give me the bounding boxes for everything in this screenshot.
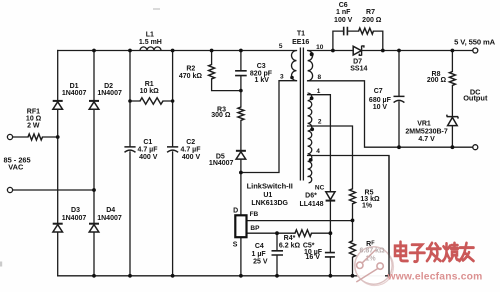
svg-text:4: 4	[316, 148, 320, 155]
svg-text:1N4007: 1N4007	[62, 215, 87, 222]
svg-text:10 V: 10 V	[373, 104, 388, 111]
svg-text:C2: C2	[186, 139, 195, 146]
svg-text:T1: T1	[297, 31, 305, 38]
svg-text:D6*: D6*	[305, 192, 317, 199]
svg-text:1 µF: 1 µF	[252, 251, 267, 258]
svg-text:200 Ω: 200 Ω	[427, 77, 447, 84]
svg-text:25 V: 25 V	[253, 258, 268, 265]
svg-text:300 Ω: 300 Ω	[211, 112, 231, 119]
svg-text:C3: C3	[257, 63, 266, 70]
svg-text:1N4007: 1N4007	[62, 90, 87, 97]
svg-text:LL4148: LL4148	[299, 201, 323, 208]
svg-text:NC: NC	[315, 184, 325, 191]
svg-text:1: 1	[317, 88, 321, 95]
svg-text:1.5 mH: 1.5 mH	[139, 39, 162, 46]
svg-text:BP: BP	[250, 225, 260, 232]
svg-text:S: S	[233, 242, 238, 249]
svg-text:C7: C7	[374, 88, 383, 95]
svg-text:L1: L1	[146, 32, 154, 39]
svg-text:5 V, 550 mA: 5 V, 550 mA	[454, 37, 495, 46]
svg-text:2: 2	[318, 119, 322, 126]
svg-text:EE16: EE16	[292, 39, 309, 46]
svg-text:FB: FB	[250, 211, 259, 218]
svg-text:4.7 V: 4.7 V	[418, 136, 435, 143]
svg-text:R4*: R4*	[284, 235, 296, 242]
svg-text:U1: U1	[263, 192, 272, 199]
svg-text:4.7 µF: 4.7 µF	[181, 147, 202, 154]
svg-text:400 V: 400 V	[182, 154, 201, 161]
svg-text:D1: D1	[70, 83, 79, 90]
svg-text:VAC: VAC	[8, 163, 24, 172]
svg-text:1 nF: 1 nF	[336, 9, 351, 16]
svg-text:10 kΩ: 10 kΩ	[140, 88, 160, 95]
svg-text:D3: D3	[71, 207, 80, 214]
svg-text:6.2 kΩ: 6.2 kΩ	[279, 243, 301, 250]
svg-text:200 Ω: 200 Ω	[362, 17, 382, 24]
svg-text:VR1: VR1	[417, 120, 431, 127]
svg-text:RF1: RF1	[27, 109, 40, 116]
svg-text:Output: Output	[463, 93, 488, 102]
svg-text:D: D	[233, 208, 238, 215]
svg-text:680 µF: 680 µF	[369, 97, 392, 104]
svg-text:1N4007: 1N4007	[97, 90, 122, 97]
svg-text:2 W: 2 W	[27, 123, 40, 130]
svg-text:1%: 1%	[362, 203, 373, 210]
svg-text:C1: C1	[143, 139, 152, 146]
svg-text:10: 10	[316, 44, 324, 51]
svg-text:D2: D2	[104, 83, 113, 90]
svg-text:4.7 µF: 4.7 µF	[138, 147, 159, 154]
svg-text:C4: C4	[255, 243, 264, 250]
svg-text:www.elecfans.com: www.elecfans.com	[387, 272, 483, 283]
svg-text:2MM5230B-7: 2MM5230B-7	[405, 129, 448, 136]
svg-text:10 Ω: 10 Ω	[26, 116, 42, 123]
svg-text:5: 5	[279, 43, 283, 50]
svg-text:8: 8	[317, 74, 321, 81]
svg-text:400 V: 400 V	[139, 154, 158, 161]
svg-text:LNK613DG: LNK613DG	[251, 200, 288, 207]
svg-text:3: 3	[280, 74, 284, 81]
svg-text:16 V: 16 V	[305, 254, 320, 261]
svg-text:470 kΩ: 470 kΩ	[179, 73, 203, 80]
svg-text:1 kV: 1 kV	[254, 77, 269, 84]
svg-text:100 V: 100 V	[334, 17, 353, 24]
svg-text:R2: R2	[186, 65, 195, 72]
svg-text:SS14: SS14	[350, 66, 367, 73]
svg-text:1N4007: 1N4007	[209, 160, 234, 167]
svg-text:LinkSwitch-II: LinkSwitch-II	[247, 182, 293, 191]
svg-text:1N4007: 1N4007	[97, 215, 122, 222]
svg-text:D4: D4	[106, 207, 115, 214]
svg-text:R7: R7	[366, 9, 375, 16]
svg-text:C6: C6	[339, 2, 348, 9]
